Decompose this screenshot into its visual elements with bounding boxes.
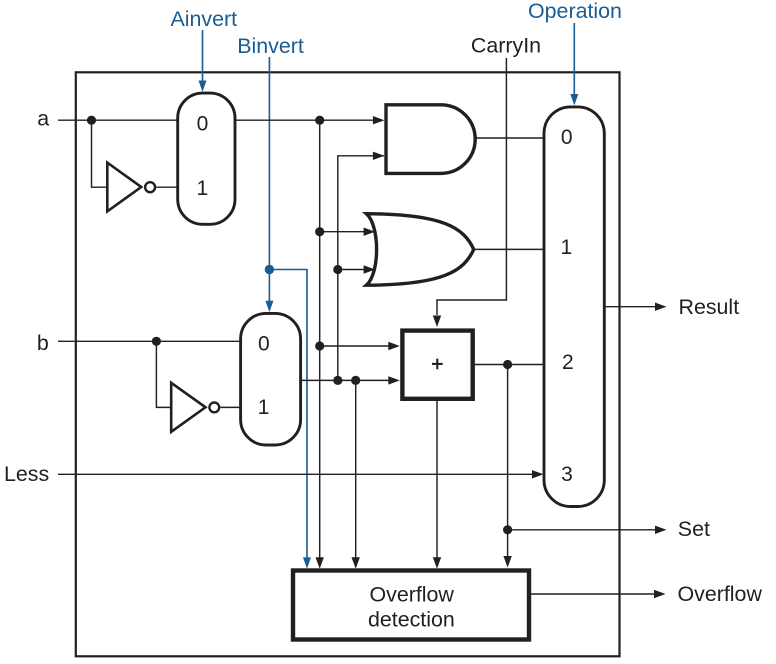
- wire AND output to result mux input 0: [475, 137, 544, 139]
- CarryIn arrowhead into adder: [433, 316, 441, 328]
- arrowhead Less into result mux: [532, 470, 544, 478]
- svg-text:Binvert: Binvert: [237, 34, 304, 58]
- Binvert junction dot: [265, 265, 274, 274]
- node a input junction: [87, 116, 96, 125]
- node OR input 2 junction: [333, 265, 342, 274]
- wire Result output: [604, 306, 655, 308]
- overflow detection box: [293, 571, 529, 640]
- Ainvert arrowhead: [199, 81, 207, 92]
- wire to OR input 2: [338, 269, 364, 271]
- node adder output junction: [503, 360, 512, 369]
- node adder input 1 junction: [315, 341, 324, 350]
- svg-text:3: 3: [561, 463, 573, 486]
- wire adder carry-out down to overflow detection: [436, 401, 438, 558]
- wire a to NOT gate: [92, 120, 107, 187]
- wire a input to a-mux: [58, 119, 178, 121]
- arrowhead Overflow output: [654, 590, 666, 598]
- NOT gate (b) bubble: [209, 403, 219, 413]
- svg-text:Operation: Operation: [528, 0, 622, 23]
- arrowhead a line into overflow detection: [316, 557, 324, 569]
- arrowhead adder branch into overflow detection: [503, 556, 511, 568]
- arrowhead carry-out into overflow detection: [433, 557, 441, 569]
- arrowhead Set output: [655, 526, 667, 534]
- mux b (2:1): [241, 313, 301, 445]
- Operation arrowhead into result mux: [570, 94, 578, 105]
- wire Less to result mux input 3: [58, 473, 533, 475]
- wire a-mux output to AND gate: [235, 119, 373, 121]
- svg-text:Result: Result: [679, 295, 740, 319]
- wire a vertical distribution line: [319, 120, 321, 557]
- svg-text:a: a: [37, 107, 49, 131]
- svg-text:0: 0: [258, 333, 270, 356]
- wire Set output: [508, 529, 656, 531]
- svg-text:0: 0: [561, 126, 573, 149]
- node b input junction: [152, 337, 161, 346]
- wire inverted-b distribution vertical: [338, 156, 384, 381]
- wire NOT (b) to b-mux input 1: [220, 406, 240, 408]
- svg-text:0: 0: [197, 112, 209, 135]
- wire b branch down to overflow detection: [355, 380, 357, 557]
- node OR input 1 junction: [315, 227, 324, 236]
- svg-text:1: 1: [561, 236, 573, 259]
- Operation control wire: [573, 23, 575, 94]
- arrowhead into OR input 2: [364, 265, 376, 273]
- svg-text:1: 1: [258, 396, 270, 419]
- NOT gate (a) triangle: [107, 163, 141, 212]
- svg-text:2: 2: [562, 351, 574, 374]
- wire OR output to result mux input 1: [474, 248, 544, 250]
- wire b to NOT gate: [156, 341, 171, 407]
- adder box: [402, 331, 472, 399]
- svg-text:CarryIn: CarryIn: [471, 34, 541, 58]
- arrowhead into AND input 1: [373, 116, 385, 124]
- svg-text:Set: Set: [678, 517, 710, 541]
- mux a (2:1): [178, 93, 235, 224]
- arrowhead Result output: [655, 303, 667, 311]
- node b-mux output junction 1: [333, 376, 342, 385]
- node a-mux output junction: [315, 116, 324, 125]
- Binvert branch wire to overflow detection: [269, 270, 307, 558]
- svg-text:1: 1: [197, 177, 209, 200]
- wire adder output branch down to Set: [507, 365, 509, 557]
- outer frame box: [76, 72, 620, 656]
- arrowhead into OR input 1: [364, 228, 376, 236]
- Ainvert control wire: [202, 30, 204, 81]
- wire NOT (a) to a-mux input 1: [156, 186, 177, 188]
- wire b-mux output to adder input 2: [301, 379, 389, 381]
- NOT gate (b) triangle: [171, 383, 205, 432]
- NOT gate (a) bubble: [145, 182, 155, 192]
- result mux (4:1): [544, 107, 604, 507]
- svg-text:Less: Less: [4, 462, 49, 486]
- wire a branch to adder input 1: [320, 345, 389, 347]
- svg-text:Ainvert: Ainvert: [171, 7, 238, 31]
- Binvert arrowhead into b mux: [265, 301, 273, 312]
- arrowhead into adder input 2: [388, 376, 400, 384]
- CarryIn wire: [437, 58, 506, 315]
- node b-mux output junction 2: [351, 376, 360, 385]
- wire adder output to result mux input 2: [475, 364, 544, 366]
- Binvert arrowhead into overflow detection: [303, 557, 311, 568]
- Binvert control wire vertical: [268, 57, 270, 301]
- adder plus sign: [432, 363, 443, 365]
- wire b input to b-mux: [58, 340, 241, 342]
- node Set junction: [503, 525, 512, 534]
- arrowhead b branch into overflow detection: [352, 557, 360, 569]
- svg-text:Overflow: Overflow: [678, 582, 763, 606]
- arrowhead into adder input 1: [388, 342, 400, 350]
- svg-text:detection: detection: [368, 608, 455, 632]
- svg-text:b: b: [37, 331, 49, 355]
- wire Overflow output: [529, 593, 655, 595]
- svg-text:Overflow: Overflow: [369, 583, 454, 607]
- arrowhead into AND input 2: [373, 152, 385, 160]
- wire to OR input 1: [320, 231, 364, 233]
- OR gate: [366, 214, 473, 286]
- AND gate: [386, 105, 475, 174]
